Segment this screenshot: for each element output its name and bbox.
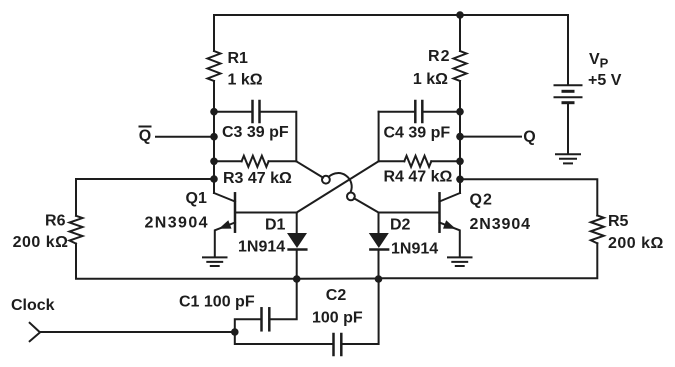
svg-text:C2: C2 [326, 287, 347, 304]
svg-text:R6: R6 [45, 213, 66, 230]
svg-text:200 kΩ: 200 kΩ [13, 234, 69, 251]
svg-text:1 kΩ: 1 kΩ [228, 72, 263, 89]
svg-text:D1: D1 [265, 217, 286, 234]
svg-text:+5 V: +5 V [588, 72, 622, 89]
svg-text:D2: D2 [390, 217, 411, 234]
svg-text:Q: Q [139, 128, 151, 145]
svg-text:100 pF: 100 pF [312, 310, 363, 327]
svg-text:Q: Q [523, 129, 535, 146]
svg-text:1N914: 1N914 [238, 239, 285, 256]
svg-text:R2: R2 [428, 48, 450, 65]
svg-text:200 kΩ: 200 kΩ [608, 235, 664, 252]
svg-text:Q2: Q2 [470, 192, 493, 209]
svg-text:R3 47 kΩ: R3 47 kΩ [223, 170, 292, 187]
svg-text:Clock: Clock [11, 297, 55, 314]
svg-text:C3 39 pF: C3 39 pF [222, 124, 289, 141]
svg-text:C1 100 pF: C1 100 pF [179, 294, 255, 311]
svg-text:2N3904: 2N3904 [470, 216, 531, 233]
svg-text:1 kΩ: 1 kΩ [413, 71, 448, 88]
svg-text:VP: VP [589, 51, 609, 71]
svg-text:R5: R5 [608, 213, 629, 230]
svg-text:R4 47 kΩ: R4 47 kΩ [384, 169, 453, 186]
svg-text:Q1: Q1 [186, 190, 207, 207]
svg-text:2N3904: 2N3904 [145, 215, 209, 232]
svg-text:R1: R1 [228, 50, 249, 67]
svg-text:C4 39 pF: C4 39 pF [384, 125, 451, 142]
svg-text:1N914: 1N914 [391, 241, 438, 258]
